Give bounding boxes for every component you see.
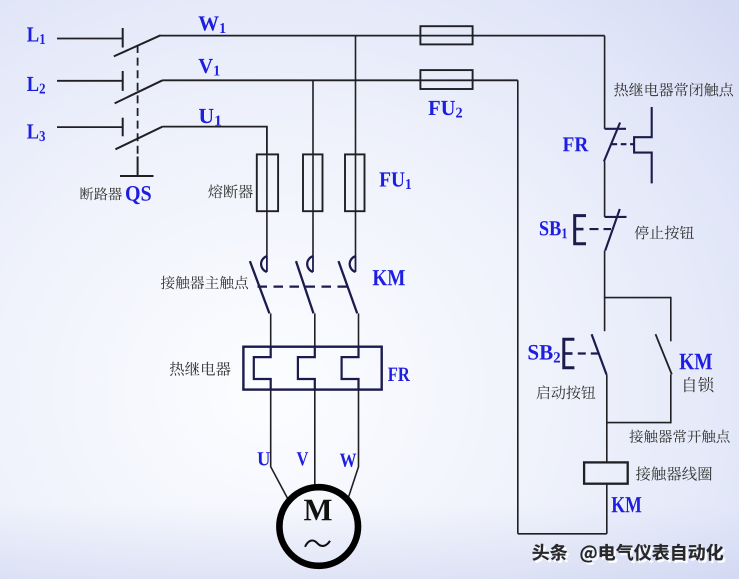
fuse FU1 phase W body [345, 154, 365, 211]
label breaker 断路器 [80, 187, 122, 200]
wire junction to coil [606, 423, 608, 463]
breaker QS pole 3 blade [115, 127, 162, 150]
wire W1 [160, 35, 605, 37]
breaker QS pole 2 blade [115, 80, 163, 103]
wire KM contact phase V arc chord [312, 256, 314, 272]
wire coil bottom [606, 484, 608, 534]
wire SB2 branch upper [604, 297, 606, 331]
contactor KM designator (main contacts) [373, 270, 405, 285]
breaker QS pole 1 blade [114, 35, 161, 56]
label 启动按钮 [537, 385, 596, 399]
label main contacts 接触器主触点 [161, 276, 248, 290]
stop button SB1 blade [605, 209, 620, 251]
thermal relay FR trip element [634, 107, 652, 183]
breaker QS designator [126, 186, 151, 204]
breaker QS pole 1 fixed contact [122, 28, 124, 48]
thermal relay FR designator [388, 368, 410, 381]
fuse FU1 phase U wire [266, 154, 268, 256]
wire L2 input [57, 80, 123, 82]
contactor KM auxiliary (self-hold) contact blade [656, 334, 672, 374]
wire U to motor [271, 390, 288, 499]
wire FR contact to SB1 [604, 162, 606, 217]
start button SB2 blade [592, 334, 607, 375]
wire SB2 branch lower [606, 375, 608, 424]
thermal relay FR NC contact seat [605, 128, 626, 130]
motor M letter [304, 500, 332, 521]
wire L3 input [57, 126, 123, 128]
wire KM aux branch lower [670, 374, 672, 423]
node V [297, 452, 309, 465]
node L3 [27, 124, 45, 141]
node U [258, 452, 271, 465]
label 停止按钮 [635, 226, 694, 240]
node junction top (SB2/KM branch) [605, 297, 671, 299]
thermal relay FR box [243, 347, 381, 390]
label self-hold 自锁 [684, 377, 713, 393]
contactor KM main contact phase U fixed-end arc [261, 256, 267, 272]
label 接触器常开触点 [629, 430, 729, 443]
fuse FU2 designator [429, 101, 463, 118]
wire KM contact phase U to FR [270, 313, 272, 347]
thermal relay FR heater phase V [298, 347, 315, 390]
breaker QS operator stem [137, 157, 139, 177]
wire V1 [163, 79, 518, 81]
contactor KM main contact phase V blade [296, 261, 314, 313]
breaker QS operator bar [120, 175, 154, 177]
fuse FU1 phase V body [303, 154, 323, 211]
wire control right rail (W1 to FR contact) [604, 36, 606, 129]
node L1 [27, 27, 45, 44]
wire L1 input [57, 38, 123, 40]
node V1 [199, 59, 220, 76]
wire W1 drop to FU1 [355, 36, 357, 155]
node U1 [199, 109, 221, 126]
fuse FU1 designator [380, 172, 412, 189]
thermal relay FR designator (contact) [563, 137, 589, 151]
wire KM contact phase V to FR [314, 313, 316, 347]
stop button SB1 actuator [575, 216, 586, 244]
node junction bottom [607, 422, 671, 424]
wire bottom return rail [518, 533, 607, 535]
fuse FU1 phase U body [257, 154, 278, 211]
wire V to motor [314, 390, 316, 485]
node W [340, 454, 357, 467]
fuse FU2 phase W1 body [420, 26, 472, 44]
stop button SB1 seat [605, 216, 627, 218]
motor M circle [279, 487, 358, 566]
wire KM contact phase U arc chord [266, 256, 268, 272]
breaker QS pole 3 fixed contact [122, 118, 124, 137]
contactor KM main contact phase U blade [250, 261, 270, 313]
contactor KM main-contact linkage (dashed) [258, 286, 353, 288]
start button SB2 actuator prong [564, 352, 573, 355]
contactor KM main contact phase W blade [339, 261, 358, 313]
wire control left rail (V1 down) [517, 80, 519, 534]
motor AC tilde [305, 540, 330, 546]
start button SB2 linkage (dashed) [578, 352, 598, 354]
node L2 [27, 77, 45, 94]
node W1 [199, 16, 226, 33]
start button SB2 designator [529, 345, 561, 363]
stop button SB1 linkage (dashed) [590, 228, 612, 230]
label coil 接触器线圈 [636, 466, 712, 480]
thermal relay FR NC contact linkage (dashed) [612, 143, 635, 145]
thermal relay FR NC contact blade [604, 123, 620, 162]
stop button SB1 actuator prong [575, 228, 584, 231]
contactor KM main contact phase W fixed-end arc [350, 256, 356, 272]
wire KM contact phase W arc chord [355, 256, 357, 272]
contactor coil KM body [584, 462, 628, 483]
contactor coil KM designator [612, 497, 642, 512]
wire U1 (turns down to FU1) [163, 127, 267, 155]
wire W to motor [348, 390, 359, 499]
breaker QS linkage (dashed) [137, 45, 139, 154]
wire KM contact phase W to FR [358, 313, 360, 347]
contactor KM designator (aux contact) [680, 354, 713, 369]
label thermal relay 热继电器 [170, 362, 231, 376]
wire KM aux branch upper [670, 297, 672, 342]
thermal relay FR heater phase U [254, 347, 271, 390]
watermark 头条@电气仪表自动化 [532, 544, 725, 565]
wire V1 drop to FU1 [312, 80, 314, 154]
stop button SB1 designator [540, 221, 567, 238]
label 热继电器常闭触点 [614, 83, 733, 97]
fuse FU1 phase W wire [355, 154, 357, 256]
label fuse 熔断器 [208, 184, 253, 198]
thermal relay FR heater phase W [342, 347, 359, 390]
breaker QS pole 2 fixed contact [122, 71, 124, 91]
contactor KM main contact phase V fixed-end arc [307, 256, 313, 272]
fuse FU2 phase V1 body [420, 70, 472, 89]
fuse FU1 phase V wire [312, 154, 314, 256]
wire SB1 to junction [604, 251, 606, 298]
start button SB2 actuator [564, 339, 575, 367]
